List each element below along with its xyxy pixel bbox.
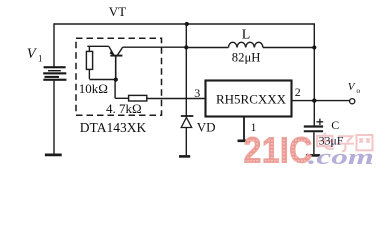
- pin label 3: [194, 86, 200, 100]
- svg-text:V: V: [348, 81, 356, 93]
- svg-text:82μH: 82μH: [232, 50, 261, 64]
- wire 10k bottom to base node: [89, 79, 115, 81]
- watermark .com: [308, 145, 374, 169]
- IC U1 RH5RCXXX: [206, 81, 292, 117]
- node base junction dot: [114, 78, 118, 82]
- terminal Vo circle: [350, 99, 355, 104]
- wire collector to switch vertical: [123, 46, 187, 48]
- battery V1: [43, 66, 66, 81]
- watermark chinese char wang: [357, 135, 373, 150]
- node output junction dot: [312, 98, 316, 102]
- watermark 21IC: [244, 131, 313, 171]
- svg-text:.com: .com: [308, 145, 374, 169]
- label VT: [109, 4, 126, 19]
- label L: [242, 27, 251, 42]
- svg-text:C: C: [331, 118, 339, 132]
- wire pin 1 lead: [243, 117, 245, 140]
- node inductor output junction dot: [312, 45, 316, 49]
- wire inductor right segment: [263, 47, 314, 49]
- svg-text:21IC: 21IC: [244, 131, 313, 171]
- label V1: [27, 46, 43, 64]
- capacitor C plus sign: [317, 119, 324, 125]
- ground pin 1: [238, 140, 251, 143]
- wire battery bottom lead: [53, 81, 55, 154]
- wire diode anode lead: [185, 128, 187, 156]
- wire inductor left segment: [186, 47, 228, 49]
- svg-text:RH5RCXXX: RH5RCXXX: [216, 92, 287, 107]
- capacitor C: [304, 127, 323, 132]
- resistor 10k bottom lead: [88, 69, 90, 79]
- wire emitter feed inside box: [87, 45, 109, 47]
- pin label 1: [251, 122, 257, 134]
- svg-text:1: 1: [38, 54, 43, 64]
- transistor VT (PNP): [109, 46, 123, 79]
- svg-text:VD: VD: [197, 119, 216, 134]
- wire top supply rail VT node: [54, 23, 314, 25]
- node rail junction dot: [185, 22, 189, 26]
- svg-text:2: 2: [295, 85, 301, 99]
- watermark chinese char zi: [337, 136, 355, 151]
- svg-text:VT: VT: [109, 4, 126, 19]
- inductor L 82uH: [228, 42, 263, 47]
- svg-text:o: o: [356, 86, 360, 95]
- wire base down to 4.7k: [115, 80, 129, 99]
- pin label 2: [295, 85, 301, 99]
- svg-text:33μF: 33μF: [319, 134, 344, 148]
- watermark chinese char dian: [317, 133, 334, 149]
- wire 4.7k to pin 3: [147, 98, 206, 100]
- wire switch node vertical: [185, 23, 187, 115]
- label 10kOhm: [79, 81, 108, 96]
- svg-text:4. 7kΩ: 4. 7kΩ: [106, 101, 142, 116]
- svg-text:L: L: [242, 27, 251, 42]
- wire battery top lead: [53, 23, 55, 67]
- svg-text:10kΩ: 10kΩ: [79, 81, 108, 96]
- resistor 10k top lead: [88, 46, 90, 51]
- dashed box DTA143XK: [76, 38, 162, 115]
- resistor R 4.7k: [129, 95, 147, 101]
- wire pin 2 to output terminal: [292, 100, 350, 102]
- label DTA143XK: [80, 120, 147, 135]
- label 82uH: [232, 50, 261, 64]
- label Vo: [348, 81, 361, 95]
- diode VD: [181, 116, 193, 128]
- node collector inductor junction dot: [184, 45, 188, 49]
- wire right vertical (rail to cap): [313, 23, 315, 125]
- resistor R 10k: [86, 51, 92, 69]
- label C: [331, 118, 339, 132]
- label VD: [197, 119, 216, 134]
- svg-text:V: V: [27, 46, 38, 62]
- wire capacitor bottom lead: [313, 132, 315, 154]
- label 4.7kOhm: [106, 101, 142, 116]
- ground diode: [179, 155, 190, 158]
- svg-text:DTA143XK: DTA143XK: [80, 120, 147, 135]
- ground battery: [45, 153, 62, 156]
- ground capacitor: [306, 154, 320, 157]
- svg-text:3: 3: [194, 86, 200, 100]
